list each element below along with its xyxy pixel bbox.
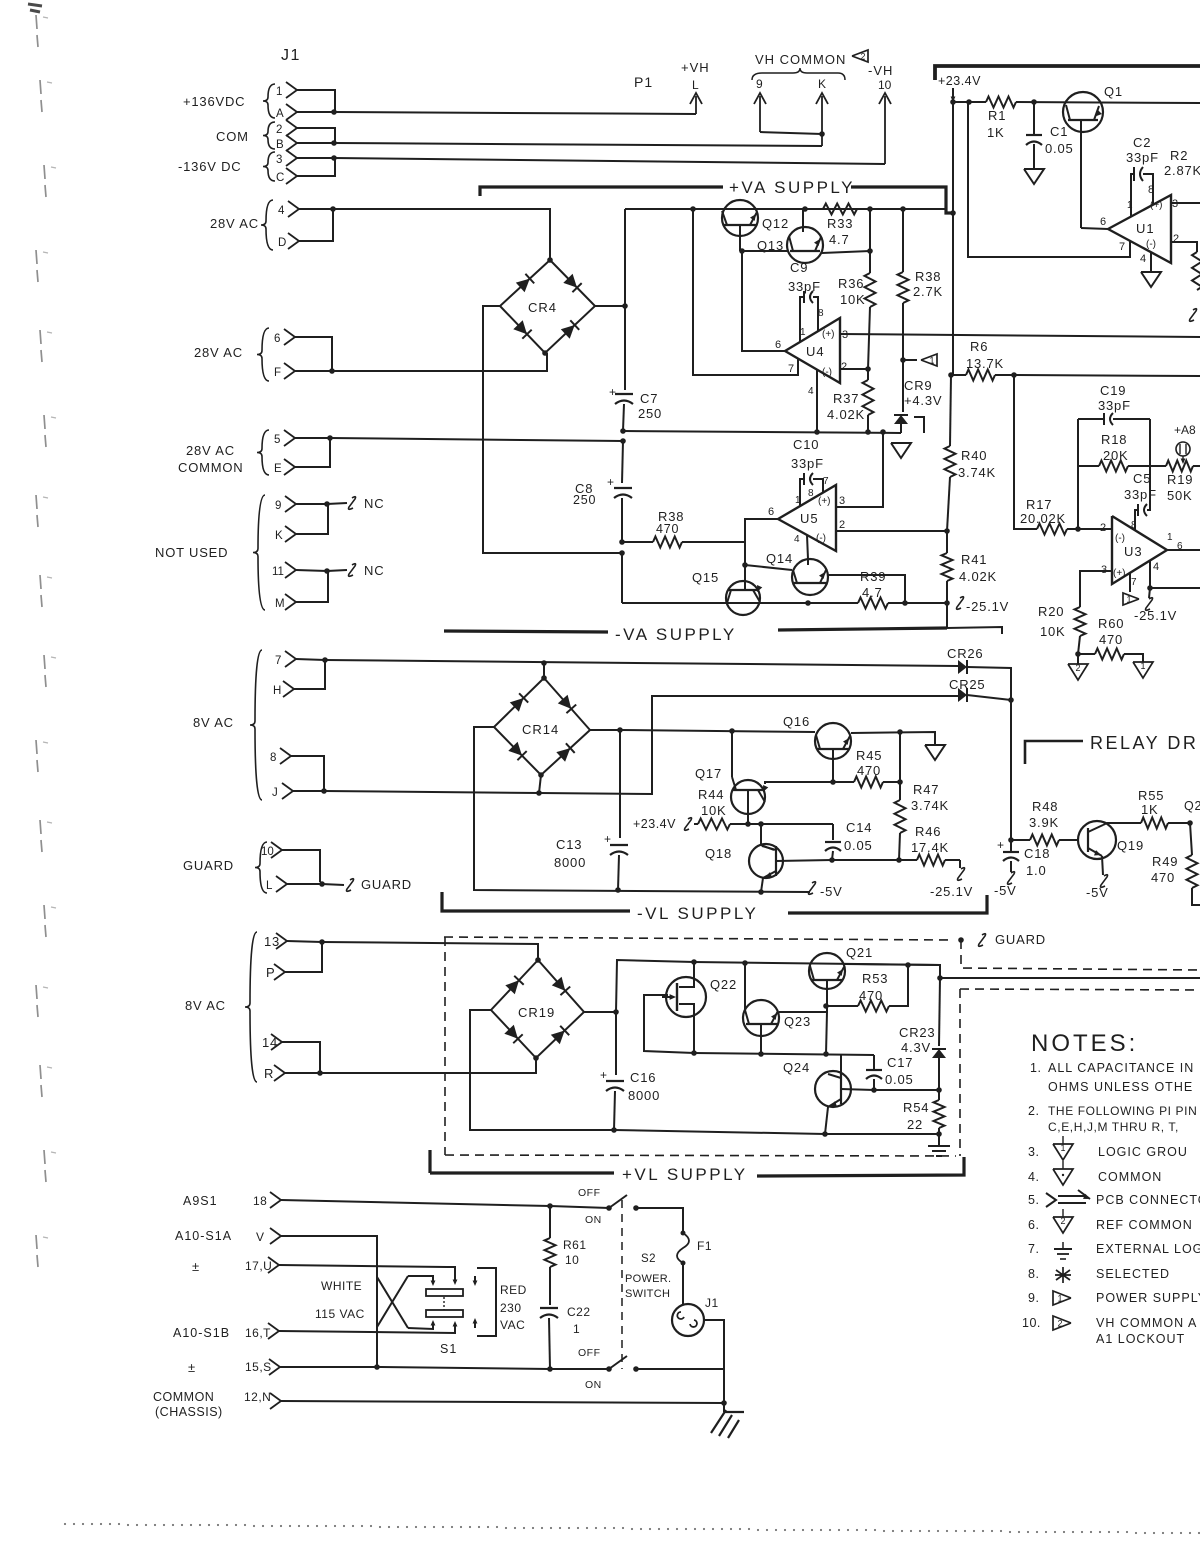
svg-text:13.7K: 13.7K [966,356,1004,371]
svg-text:R44: R44 [698,787,724,802]
svg-text:ON: ON [585,1379,602,1391]
svg-text:-5V: -5V [1086,885,1109,900]
pin F [284,363,295,379]
svg-text:COMMON: COMMON [1098,1170,1162,1184]
svg-text:RED: RED [500,1283,527,1297]
svg-text:12,N: 12,N [244,1390,271,1404]
wire CR4 + output [595,305,625,307]
svg-text:C9: C9 [790,260,808,275]
svg-text:PCB CONNECTO: PCB CONNECTO [1096,1193,1200,1207]
transistor Q1 [1063,92,1103,132]
bracket right of CR9 [914,417,924,433]
svg-text:10: 10 [565,1253,579,1267]
diode CR25 [958,688,967,702]
resistor R40 [950,375,951,446]
pin A [286,104,297,120]
svg-text:F1: F1 [697,1239,712,1253]
svg-text:+: + [604,832,611,846]
svg-text:VH COMMON: VH COMMON [755,52,846,67]
svg-text:R48: R48 [1032,799,1058,814]
svg-text:7: 7 [788,363,794,375]
svg-text:R20: R20 [1038,604,1064,619]
svg-text:C13: C13 [556,837,582,852]
svg-text:33pF: 33pF [791,456,824,471]
transistor Q12 [722,200,758,236]
pin J [282,783,293,799]
svg-text:SELECTED: SELECTED [1096,1267,1170,1281]
resistor R46 [899,859,917,861]
svg-text:E: E [274,463,282,475]
svg-text:R37: R37 [833,391,859,406]
svg-text:Q21: Q21 [846,945,873,960]
wire Q23 emitter to Q21 base [779,1011,827,1013]
svg-text:POWER.: POWER. [625,1273,671,1285]
svg-text:1: 1 [1167,532,1173,543]
svg-text:-5V: -5V [820,884,843,899]
svg-text:17.4K: 17.4K [911,840,949,855]
resistor R20 [1075,607,1086,636]
+23.4V feed bracket [935,66,1200,80]
svg-text:17,U: 17,U [245,1259,272,1273]
svg-text:4: 4 [1153,561,1159,573]
svg-text:8V AC: 8V AC [193,715,234,730]
svg-text:Q12: Q12 [762,216,789,231]
pin 4 [288,201,299,217]
svg-text:R60: R60 [1098,616,1124,631]
wire U5 pin4 to Q14 collector [807,535,808,559]
svg-text:NOT USED: NOT USED [155,545,228,560]
resistor R41 [942,553,953,581]
wire Q16 collector node down to R45/R47 [899,732,901,800]
wire Q12 base to Q13 [739,225,741,251]
svg-text:4: 4 [794,534,800,545]
svg-text:(+): (+) [818,496,831,507]
wire +23.4V rail [953,101,986,103]
op-amp U5 [778,485,836,551]
arrow P1 pin K [821,96,823,146]
wire Q13 emitter to R36 node [822,251,870,253]
svg-text:R41: R41 [961,552,987,567]
svg-text:CR9: CR9 [904,378,932,393]
wire 9-K tie [760,132,822,134]
node A junction [331,109,337,115]
resistor R47 [895,800,906,833]
svg-text:28V AC: 28V AC [210,216,259,231]
resistor R33 [823,204,857,215]
svg-text:1: 1 [1060,1143,1065,1153]
svg-text:C1: C1 [1050,124,1068,139]
pin L [276,876,287,892]
wire U5 pin2 to R40/R41 node [836,530,947,532]
chassis ground [723,1403,725,1412]
svg-text:Q1: Q1 [1104,84,1123,99]
svg-text:NOTES:: NOTES: [1031,1030,1138,1057]
svg-text:R36: R36 [838,276,864,291]
ref common triangle 2 [1077,654,1079,664]
resistor R48 [1030,835,1059,846]
svg-text:1: 1 [1126,595,1131,605]
svg-text:C19: C19 [1100,383,1126,398]
svg-text:10K: 10K [840,292,866,307]
resistor R36 [869,251,871,273]
capacitor C16 [615,1012,617,1075]
transformer S1 windings [426,1289,463,1296]
wire CR14 bottom to pinJ line [539,775,541,793]
pin 6 [284,329,295,345]
brace over 9 and K [752,68,845,80]
svg-text:C5: C5 [1133,471,1151,486]
wire Q21 emitter line corner [845,964,940,978]
wire +VA bottom rail [623,431,901,433]
svg-text:-25.1V: -25.1V [966,599,1009,614]
svg-text:R39: R39 [860,569,886,584]
svg-text:NC: NC [364,563,384,578]
ground below R54 [938,1134,940,1146]
resistor R39 [858,598,888,609]
svg-text:1.0: 1.0 [1026,863,1046,878]
svg-text:(CHASSIS): (CHASSIS) [155,1405,223,1419]
capacitor C17 [873,1055,875,1069]
svg-text:10: 10 [878,78,892,92]
svg-text:R45: R45 [856,748,882,763]
svg-text:K: K [818,77,826,91]
svg-text:16,T: 16,T [245,1326,271,1340]
transistor Q13 [787,227,823,263]
node +23.4V [952,88,954,99]
scan artifacts bottom dotted line [64,1523,66,1525]
op-amp U1 [1108,195,1171,263]
svg-text:18: 18 [253,1194,267,1208]
svg-text:(-): (-) [822,367,832,378]
svg-text:R1: R1 [988,108,1006,123]
svg-text:7.: 7. [1028,1242,1039,1256]
svg-text:28V AC: 28V AC [186,443,235,458]
svg-text:C16: C16 [630,1070,656,1085]
wire U1 pin2 [1171,242,1197,252]
svg-text:5.: 5. [1028,1193,1039,1207]
svg-text:7: 7 [1119,241,1125,253]
potentiometer R19 [1166,461,1193,472]
svg-text:P1: P1 [634,74,653,90]
wire CR14 + node [590,729,620,731]
GUARD stub [322,884,344,885]
pin B [286,135,297,151]
svg-text:230: 230 [500,1301,522,1315]
transistor Q14 [792,559,828,595]
scan artifacts left margin [36,15,38,47]
svg-text:4.7: 4.7 [862,585,882,600]
svg-text:33pF: 33pF [1098,398,1131,413]
svg-text:1: 1 [276,86,282,98]
svg-text:A1 LOCKOUT: A1 LOCKOUT [1096,1332,1185,1346]
resistor R6 [953,374,966,376]
wire Q17 base down to R44 line [747,790,749,824]
svg-text:CR4: CR4 [528,300,557,315]
label -25.1V left [957,597,964,610]
zener CR23 [939,978,940,1046]
svg-text:4.7: 4.7 [829,232,849,247]
svg-text:C17: C17 [887,1055,913,1070]
switch S2 link dashed [621,1200,623,1369]
svg-text:3.74K: 3.74K [911,798,949,813]
svg-text:1K: 1K [987,125,1005,140]
svg-text:C14: C14 [846,820,872,835]
svg-text:VAC: VAC [500,1318,525,1332]
svg-text:6: 6 [775,339,781,351]
bridge rectifier CR19 [491,960,584,1058]
wire R36 node to rail [869,209,871,251]
wire Q18 base line [776,860,832,861]
svg-text:C,E,H,J,M THRU R, T,: C,E,H,J,M THRU R, T, [1048,1120,1179,1134]
svg-text:S2: S2 [641,1253,656,1265]
svg-text:28V AC: 28V AC [194,345,243,360]
wire pin4 to CR4 top [333,209,550,260]
wire CR19 - down to bottom [470,1010,614,1130]
arrow P1 pin L [695,96,697,114]
svg-text:4.: 4. [1028,1170,1039,1184]
wire +VL bottom line [614,1130,825,1134]
transistor Q16 [815,723,851,759]
resistor R49 [1190,823,1192,855]
wire Q14 base [745,565,792,570]
svg-text:GUARD: GUARD [995,932,1046,947]
svg-text:2: 2 [1057,1319,1062,1329]
ground below U1 pin4 [1150,252,1152,272]
label RELAY DRIVER [1025,741,1083,764]
svg-text:Q22: Q22 [710,977,737,992]
svg-text:470: 470 [656,522,679,536]
svg-text:3: 3 [276,154,282,166]
svg-text:1: 1 [929,356,934,366]
resistor R38 470 [622,541,653,543]
svg-text:2: 2 [1075,663,1080,673]
svg-text:R38: R38 [915,269,941,284]
arrow P1 pin 9 [759,96,761,132]
svg-text:6: 6 [768,506,774,518]
svg-text:+: + [607,475,614,489]
wire Q24 collector riser [840,1054,842,1075]
bridge rectifier CR4 [500,260,595,353]
svg-text:50K: 50K [1167,488,1193,503]
svg-text:C7: C7 [640,391,658,406]
svg-text:H: H [273,685,281,697]
wire 8VAC pinJ line [324,791,539,793]
svg-text:15,S: 15,S [245,1360,272,1374]
wire U1 out to Q1 base [1081,228,1108,229]
wire 28VAC common line [330,438,623,441]
svg-text:+: + [609,385,616,399]
resistor R37 [863,380,874,415]
svg-text:3.9K: 3.9K [1029,815,1059,830]
transistor Q24 [815,1071,851,1107]
label -5V below C18 [1008,872,1015,885]
svg-text:C18: C18 [1024,846,1050,861]
svg-text:L: L [692,78,699,92]
wire Q24 emitter down [825,1107,828,1134]
svg-text:7: 7 [1131,577,1137,588]
wire Q16 base down [832,749,834,782]
resistor R1 [986,97,1016,108]
transistor Q18 [749,844,783,878]
wire U4 pin4 down [816,369,818,432]
svg-text:4.02K: 4.02K [827,407,865,422]
svg-text:Q17: Q17 [695,766,722,781]
mosfet Q22 [666,977,706,1017]
resistor R38 2.7K [902,209,904,272]
guard dashed line [444,937,953,940]
svg-text:WHITE: WHITE [321,1279,362,1293]
wire U4 pin7 to rail [693,209,798,375]
svg-text:R33: R33 [827,216,853,231]
resistor R61 [549,1206,551,1238]
svg-text:8000: 8000 [554,855,586,870]
capacitor C14 [832,824,834,840]
svg-text:COMMON: COMMON [153,1390,214,1404]
label -25.1V at R46 [959,860,961,868]
wire +23.4V vertical feed [952,102,954,375]
svg-text:1.: 1. [1030,1061,1041,1075]
svg-text:Q15: Q15 [692,570,719,585]
NC mark pin 9 [327,503,347,504]
svg-text:1: 1 [1057,1294,1062,1304]
transistor Q19 [1078,821,1116,859]
wire pin7 to CR14 top [543,663,545,678]
resistor R60 [1078,653,1095,655]
wire U3 pin3 [1080,571,1112,607]
wire Q22 gate loop [644,995,694,1053]
svg-text:470: 470 [1099,632,1123,647]
svg-text:RELAY DRI: RELAY DRI [1090,733,1200,753]
NC mark pin 11 [327,570,347,571]
wire gate line along bottom [694,1053,874,1055]
resistor R45 [833,781,854,783]
svg-text:NC: NC [364,496,384,511]
wire Q1 base down to U1 out [1080,120,1082,228]
svg-text:V: V [256,1230,265,1244]
wire C19/R18 node riser [1077,419,1079,529]
svg-text:OFF: OFF [578,1347,601,1359]
wire U4 out to Q13 base node [742,251,785,351]
wire Q13 collector to rail [802,209,804,232]
common triangle 1 [1133,662,1153,678]
svg-text:-136V DC: -136V DC [178,159,241,174]
svg-text:R49: R49 [1152,854,1178,869]
svg-text:(+): (+) [1113,568,1126,579]
wire Q19 collector to R55 [1103,823,1141,825]
svg-text:(-): (-) [1146,239,1156,250]
svg-text:2.: 2. [1028,1104,1039,1118]
pin K [285,526,296,542]
svg-text:2.7K: 2.7K [913,284,943,299]
svg-text:VH COMMON A: VH COMMON A [1096,1316,1197,1330]
diode CR26 [958,660,967,674]
svg-text:0.05: 0.05 [844,838,873,853]
svg-text:(+): (+) [822,329,835,340]
svg-text:Q23: Q23 [784,1014,811,1029]
pin 11 [285,562,296,578]
svg-text:J1: J1 [705,1296,719,1310]
pin 5 [284,430,295,446]
connector J1 plug [672,1304,704,1336]
svg-text:33pF: 33pF [1124,487,1157,502]
wire Q15 base riser [744,565,746,590]
wire R1 to Q1 [1016,102,1200,103]
wire R6 node down to R17 [1014,375,1037,529]
svg-text:R6: R6 [970,339,988,354]
svg-text:U1: U1 [1136,221,1155,236]
pin E [284,459,295,475]
svg-text:ALL CAPACITANCE IN: ALL CAPACITANCE IN [1048,1061,1194,1075]
svg-text:CR26: CR26 [947,646,983,661]
svg-text:10.: 10. [1022,1316,1041,1330]
svg-text:1: 1 [1127,200,1133,211]
svg-text:+A8: +A8 [1174,423,1196,437]
svg-text:Q16: Q16 [783,714,810,729]
svg-text:L: L [266,880,273,892]
svg-text:33pF: 33pF [1126,150,1159,165]
svg-text:3.74K: 3.74K [958,465,996,480]
op-amp U3 [1112,516,1167,584]
pin 1 [286,82,297,98]
svg-text:CR23: CR23 [899,1025,935,1040]
svg-text:8: 8 [808,488,814,499]
svg-text:6: 6 [1100,216,1106,228]
ground below C1 [1024,169,1044,184]
svg-text:7: 7 [823,476,829,487]
svg-text:8.: 8. [1028,1267,1039,1281]
svg-text:A9S1: A9S1 [183,1194,218,1208]
wire U3 output [1167,549,1200,551]
svg-text:R19: R19 [1167,472,1193,487]
svg-text:Q2: Q2 [1184,799,1200,813]
svg-text:250: 250 [573,493,596,507]
wire Q23 collector riser [744,963,746,1010]
transistor Q23 [743,1000,779,1036]
ground right of Q16 [925,745,945,760]
svg-text:115 VAC: 115 VAC [315,1307,365,1321]
svg-text:2: 2 [841,361,847,373]
svg-text:P: P [266,965,275,980]
svg-text:-25.1V: -25.1V [1134,608,1177,623]
svg-text:Q24: Q24 [783,1060,810,1075]
wire Q18 collector riser [761,824,774,850]
resistor R17 [1037,524,1067,535]
svg-text:+23.4V: +23.4V [938,74,981,88]
label +VL SUPPLY [428,1150,431,1173]
svg-text:Q14: Q14 [766,551,793,566]
svg-text:+: + [997,838,1004,852]
wire U3 pin4 to -25.1V [1149,561,1151,588]
svg-text:2: 2 [860,52,865,62]
capacitor C8 [622,441,623,483]
wire CR4 - output down [483,306,622,553]
svg-text:B: B [276,139,284,151]
svg-text:CR19: CR19 [518,1005,555,1020]
svg-text:+VL SUPPLY: +VL SUPPLY [622,1165,748,1184]
feedback U1 pin7 loop [968,103,1130,257]
svg-text:J1: J1 [281,47,301,64]
wire Q13 base [742,250,788,252]
wire CR14 - to C13 bottom rail [474,727,810,892]
svg-text:R46: R46 [915,824,941,839]
switch S2 upper [550,1206,609,1208]
svg-text:+23.4V: +23.4V [633,817,676,831]
svg-text:CR25: CR25 [949,677,985,692]
transistor Q15 [726,581,760,615]
resistor R54 [934,1100,945,1128]
wire CR14+ to Q17/Q16 rail [620,730,815,732]
pin C [286,168,297,184]
